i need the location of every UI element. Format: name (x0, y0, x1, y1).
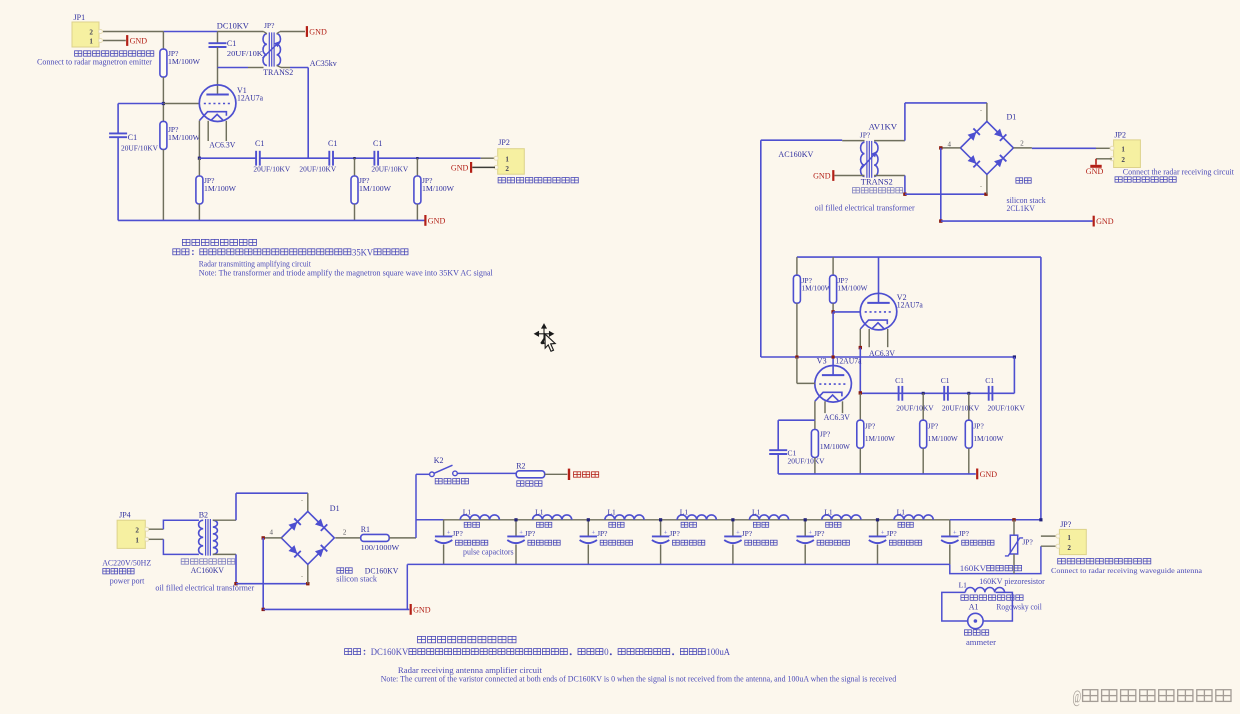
wire branch to TRANS2 primary bottom (218, 67, 249, 69)
label K2 chinese (435, 479, 442, 484)
svg-text:+: + (664, 529, 668, 536)
wire left cap top lead (117, 104, 119, 134)
svg-text:20UF/10KV: 20UF/10KV (371, 165, 408, 174)
wire to bridge2 bottom (236, 583, 308, 585)
svg-text:oil filled electrical transfor: oil filled electrical transformer (815, 204, 915, 213)
wire TRANS2 left top stub (264, 32, 267, 34)
capacitor JP? pulse #4 (652, 535, 669, 537)
wire gnd line right (941, 220, 1093, 222)
wire bottom rail (118, 219, 425, 221)
svg-text:power port: power port (110, 576, 145, 585)
wire V2 cathode to bus (859, 348, 861, 393)
wire bottom jog (950, 546, 1041, 573)
title receive chinese (418, 636, 426, 642)
svg-text:JP2: JP2 (1114, 131, 1126, 140)
rogowski coil L1 loop (942, 592, 1013, 621)
svg-text:Connect the radar receiving ci: Connect the radar receiving circuit (1123, 168, 1235, 177)
node junction bridge2 bottom (306, 582, 309, 585)
capacitor C1 bus3 (373, 151, 375, 166)
heater leads V3 (824, 401, 826, 413)
wire bus segment2 (260, 157, 330, 159)
svg-text:C1: C1 (941, 376, 950, 385)
wire rail right down (1013, 357, 1015, 393)
wire riser to K2 (415, 474, 417, 538)
wire V3 grid stub (796, 357, 798, 383)
wire bus segment4 (378, 157, 481, 159)
node junction gnd2 (262, 608, 265, 611)
svg-text:+: + (953, 529, 957, 536)
ground GND top right of TRANS2 (306, 26, 308, 37)
transformer TRANS2 left winding (263, 34, 267, 66)
svg-text:ammeter: ammeter (966, 638, 996, 647)
svg-text:+: + (736, 529, 740, 536)
svg-text:L1: L1 (959, 581, 968, 590)
svg-text:+: + (447, 529, 451, 536)
svg-text:+: + (808, 529, 812, 536)
capacitor C1 bus2 (328, 151, 330, 166)
svg-text:GND: GND (980, 470, 998, 479)
svg-text:1M/100W: 1M/100W (820, 442, 851, 451)
ground GND rail (424, 215, 426, 226)
wire gnd2 line (263, 608, 409, 610)
diode bridge D1 DC160KV (281, 511, 334, 564)
label silicon stack chinese (1016, 178, 1023, 183)
inductor L1 #6 (822, 515, 861, 520)
node junction grid (162, 102, 165, 105)
node ladder junction (587, 518, 590, 521)
svg-text:GND: GND (1096, 217, 1114, 226)
capacitor JP? pulse #7 (869, 535, 886, 537)
node junction rail right (1013, 355, 1016, 358)
wire bridge2 top lead (307, 493, 309, 511)
transformer TRANS2 core (268, 32, 270, 66)
wire ladder bus seg3 (588, 519, 660, 521)
wire jp3 pin2 stub (1041, 545, 1058, 547)
wire mid right vertical (1040, 257, 1042, 520)
wire top net blue (163, 31, 217, 33)
triode V1 12AU7a (199, 85, 236, 122)
svg-text:20UF/10KV: 20UF/10KV (942, 404, 980, 413)
wire bridge1 right lead (1013, 147, 1032, 149)
wire left cap bottom lead (117, 137, 119, 220)
svg-text:GND: GND (428, 217, 446, 226)
wire bridge1 left down (940, 148, 942, 221)
wire bridge2 bottom lead (307, 564, 309, 583)
svg-text:0: 0 (604, 647, 609, 657)
svg-text:1M/100W: 1M/100W (168, 57, 201, 66)
svg-text:1M/100W: 1M/100W (802, 283, 833, 292)
svg-text:JP?: JP? (860, 131, 871, 140)
svg-text:-: - (980, 184, 982, 190)
inductor L1 #7 (894, 515, 933, 520)
svg-text:JP?: JP? (1060, 520, 1072, 529)
wire TRANS2 right bottom (277, 65, 281, 67)
node junction bus r3 (416, 157, 418, 159)
wire mid bottom rail (778, 473, 976, 475)
ground GND at JP1 (126, 35, 128, 46)
wire ladder bus seg6 (805, 519, 877, 521)
capacitor JP? pulse #2 (507, 535, 524, 537)
wire xfmr2 bottom right (874, 175, 905, 177)
wire xfmr2 top right (874, 140, 905, 142)
node junction bus mid left (859, 391, 862, 394)
ground GND at JP2 pin2 (470, 162, 472, 173)
wire B2 bottom right (213, 553, 236, 555)
svg-text:C1: C1 (128, 133, 137, 142)
svg-text:20UF/10KV: 20UF/10KV (988, 404, 1026, 413)
svg-text:JP?: JP? (1022, 537, 1033, 546)
svg-text:TRANS2: TRANS2 (263, 68, 293, 77)
svg-text:-: - (301, 574, 303, 580)
resistor JP? 1M/100W (bus mid) (354, 158, 356, 176)
wire TRANS2 right top to GND (277, 32, 280, 34)
svg-text:GND: GND (413, 606, 431, 615)
svg-text:JP?: JP? (886, 529, 897, 538)
node junction xfmr2 out (903, 193, 906, 196)
svg-text:TRANS2: TRANS2 (861, 178, 893, 187)
node ladder junction (876, 518, 879, 521)
svg-text:2: 2 (135, 527, 139, 535)
note transmit chinese (173, 249, 180, 255)
resistor JP? 1M/100W (V3 cathode) (811, 430, 818, 458)
svg-text:4: 4 (270, 528, 274, 536)
wire V3 cathode down (814, 401, 816, 420)
wire between resistors (162, 77, 164, 121)
wire bus to JP2 (481, 157, 496, 159)
node junction gnd line (939, 219, 942, 222)
svg-text:AC160KV: AC160KV (191, 566, 224, 575)
label B2 chinese (181, 559, 188, 564)
svg-text:L1: L1 (752, 507, 761, 516)
svg-text:B2: B2 (199, 510, 208, 519)
wire cathode bus segment1 (199, 157, 256, 159)
svg-text:oil filled electrical transfor: oil filled electrical transformer (155, 583, 254, 592)
capacitor JP? pulse #8 (941, 535, 958, 537)
svg-text:160KV piezoresistor: 160KV piezoresistor (979, 577, 1045, 586)
transformer B2 right winding (213, 520, 218, 554)
svg-text:20UF/10KV: 20UF/10KV (788, 457, 826, 466)
svg-text:-: - (980, 108, 982, 114)
wire V2 cathode down (859, 329, 861, 348)
svg-text:JP?: JP? (865, 421, 876, 430)
cursor move arrows (535, 324, 554, 343)
svg-text:V3: V3 (817, 356, 827, 365)
svg-text:2: 2 (505, 165, 509, 173)
svg-text:C1: C1 (227, 39, 236, 48)
svg-text:Radar transmitting amplifying: Radar transmitting amplifying circuit (199, 260, 312, 269)
label rogowski chinese (961, 595, 968, 600)
svg-text:35KV: 35KV (352, 247, 374, 257)
svg-text:AC6.3V: AC6.3V (209, 140, 235, 149)
svg-text:1M/100W: 1M/100W (973, 434, 1004, 443)
node junction bridge1 bottom (984, 193, 987, 196)
node ladder junction (804, 518, 807, 521)
svg-text:silicon stack: silicon stack (336, 574, 377, 583)
label connect receive chinese (1115, 177, 1122, 182)
svg-text:AC35kv: AC35kv (310, 59, 337, 68)
svg-text:GND: GND (1086, 167, 1104, 176)
wire resistor2 bottom (162, 149, 164, 220)
wire ladder bus seg2 (516, 519, 588, 521)
node ladder junction (731, 518, 734, 521)
resistor JP? 1M/100W (mid B) (832, 257, 834, 275)
svg-text:1: 1 (89, 37, 93, 45)
ground GND mid (976, 469, 978, 480)
svg-text:C1: C1 (328, 139, 337, 148)
label JP2 chinese (498, 178, 505, 183)
node junction V2 grid (831, 310, 834, 313)
wire bottom bus left drop (406, 564, 408, 609)
wire ladder bus seg7 (878, 519, 950, 521)
node junction bridge1 left (939, 146, 942, 149)
node junction bus jp (1039, 518, 1042, 521)
wire jp3 pin1 (1041, 535, 1058, 537)
label ammeter chinese (965, 630, 972, 635)
wire cathode V1 down (198, 121, 200, 159)
transformer TRANS2 oil core (866, 141, 868, 178)
svg-text:pulse capacitors: pulse capacitors (463, 548, 514, 557)
wire bridge2 left down (262, 538, 264, 610)
node junction midbus d2 (967, 392, 970, 395)
wire to bridge1 bottom (905, 193, 986, 195)
ammeter A1 (968, 613, 983, 628)
wire AC160KV horizontal (761, 139, 842, 141)
wire ladder feed (416, 519, 444, 521)
capacitor C1 midbus2 (943, 386, 945, 401)
svg-text:AV1KV: AV1KV (869, 122, 898, 131)
svg-text:L1: L1 (607, 507, 616, 516)
resistor JP? 1M/100W (mid F) (968, 393, 970, 420)
switch K2 (430, 472, 435, 477)
transformer TRANS2 oil right winding (874, 142, 878, 176)
svg-text:1M/100W: 1M/100W (928, 434, 959, 443)
svg-text:C1: C1 (255, 139, 264, 148)
wire C1 branch (778, 419, 815, 421)
wire B2 top right (213, 519, 236, 521)
node junction rail A (795, 355, 798, 358)
resistor JP? 1M/100W (mid E) (922, 393, 924, 420)
svg-text:K2: K2 (434, 456, 444, 465)
wire mid second rail (761, 356, 1015, 358)
svg-text:A1: A1 (969, 603, 979, 612)
svg-text:C1: C1 (985, 376, 994, 385)
svg-text:+: + (519, 529, 523, 536)
wire ladder bus seg4 (661, 519, 733, 521)
label JP1 chinese (75, 51, 82, 56)
node junction bus r2 (353, 157, 355, 159)
wire JP1 pin2 (103, 31, 163, 33)
svg-text:L1: L1 (897, 507, 906, 516)
svg-text:@: @ (1073, 687, 1082, 707)
svg-text:AC220V/50HZ: AC220V/50HZ (102, 558, 151, 567)
resistor JP? 1M/100W (upper left) (160, 49, 167, 77)
wire cap1 leads (443, 520, 445, 537)
svg-text:JP?: JP? (928, 421, 939, 430)
node junction cathode bus (198, 157, 201, 160)
svg-text:JP?: JP? (264, 21, 275, 30)
svg-text:Note: The transformer and trio: Note: The transformer and triode amplify… (199, 268, 494, 277)
wire ladder bus right end (950, 519, 1041, 521)
wire bridge1 top lead (986, 103, 988, 123)
wire AC35kv vertical (307, 68, 309, 159)
svg-text:12AU7a: 12AU7a (836, 356, 862, 365)
svg-text:C1: C1 (895, 376, 904, 385)
node junction varistor top (1012, 518, 1015, 521)
svg-text:1: 1 (135, 537, 139, 545)
resistor JP? 1M/100W (bus right) (416, 158, 418, 176)
inductor L1 #3 (605, 515, 644, 520)
wire JP2 pin2 gnd (1096, 158, 1112, 160)
svg-text:JP?: JP? (597, 529, 608, 538)
svg-text:JP?: JP? (525, 529, 536, 538)
triode V2 12AU7a (860, 293, 897, 330)
svg-text:JP?: JP? (814, 529, 825, 538)
ground GND xfmr2 (832, 170, 834, 181)
diode bridge D1 silicon stack (960, 121, 1013, 174)
svg-text:Rogowsky coil: Rogowsky coil (996, 603, 1042, 612)
label jp3 chinese (1058, 559, 1066, 564)
svg-text:100uA: 100uA (707, 647, 731, 657)
triode V3 12AU7a (815, 366, 852, 403)
wire anode cap lead (217, 32, 219, 44)
ground GND bridge1 (1093, 216, 1095, 227)
svg-text:JP?: JP? (820, 429, 831, 438)
svg-text:DC160KV: DC160KV (371, 647, 409, 657)
wire resistor top lead (162, 32, 164, 50)
svg-text:1M/100W: 1M/100W (168, 133, 201, 142)
transformer B2 left winding (199, 520, 204, 554)
svg-text:2CL1KV: 2CL1KV (1007, 204, 1036, 213)
title transmit chinese (182, 239, 190, 245)
svg-text:12AU7a: 12AU7a (237, 94, 263, 103)
wire ladder bus seg5 (733, 519, 805, 521)
svg-text:1: 1 (505, 155, 509, 163)
wire K2 to R2 (457, 472, 516, 474)
svg-text:L1: L1 (680, 507, 689, 516)
inductor L1 #4 (677, 515, 716, 520)
svg-text:D1: D1 (1007, 112, 1017, 121)
wire bridge1 bottom lead (986, 173, 988, 194)
capacitor JP? pulse #6 (797, 535, 814, 537)
wire cap5 leads (732, 520, 734, 537)
svg-text:100/1000W: 100/1000W (361, 543, 401, 552)
svg-text:GND: GND (130, 37, 148, 46)
wire grid V2 (833, 311, 860, 313)
svg-text:JP1: JP1 (74, 13, 86, 22)
ground GND JP2 receive (1090, 165, 1101, 168)
resistor R2 water (516, 471, 545, 478)
wire grid to tube (163, 103, 200, 105)
svg-text:160KV: 160KV (960, 564, 987, 573)
node junction bridge2 left (262, 536, 265, 539)
svg-text:20UF/10K: 20UF/10K (227, 49, 264, 58)
ground rod symbol (568, 469, 570, 480)
label oil xfmr chinese (853, 188, 860, 193)
svg-text:GND: GND (813, 172, 831, 181)
svg-text:C1: C1 (373, 139, 382, 148)
svg-text:JP?: JP? (742, 529, 753, 538)
svg-text:Connect to radar magnetron emi: Connect to radar magnetron emitter (37, 57, 152, 66)
svg-text:1: 1 (1067, 534, 1071, 542)
svg-text:+: + (592, 529, 596, 536)
transformer B2 core (205, 519, 207, 556)
svg-text:20UF/10KV: 20UF/10KV (121, 144, 159, 153)
svg-text:DC10KV: DC10KV (217, 22, 249, 31)
cursor pointer (545, 334, 555, 351)
svg-text:AC160KV: AC160KV (778, 149, 814, 159)
svg-text:JP2: JP2 (498, 138, 510, 147)
node junction midbus d1 (922, 392, 925, 395)
wire to TRANS2 (218, 31, 264, 33)
wire bottom bus (407, 563, 950, 565)
wire JP4 pin2 (149, 528, 164, 530)
svg-text:Connect to radar receiving wav: Connect to radar receiving waveguide ant… (1051, 566, 1203, 575)
label silicon stack2 chinese (337, 568, 344, 573)
svg-text:1M/100W: 1M/100W (422, 184, 455, 193)
svg-text:L1: L1 (463, 507, 472, 516)
note receive chinese (345, 649, 352, 655)
wire bus segment3 (333, 157, 374, 159)
resistor JP? 1M/100W (second left) (160, 121, 167, 149)
svg-text:20UF/10KV: 20UF/10KV (253, 165, 290, 174)
svg-text:L1: L1 (824, 507, 833, 516)
svg-text:GND: GND (309, 28, 327, 37)
resistor R1 100/1000W (361, 534, 390, 541)
wire grid horizontal blue (118, 103, 163, 105)
capacitor C1 top 20UF/10K (209, 42, 227, 44)
wire cap7 leads (877, 520, 879, 537)
svg-text:GND: GND (451, 164, 469, 173)
capacitor C1 bus1 (255, 151, 257, 166)
svg-text:1M/100W: 1M/100W (838, 283, 869, 292)
svg-text:2: 2 (1020, 140, 1024, 148)
wire mid top rail (797, 256, 1041, 258)
transformer TRANS2 arrow (263, 41, 281, 58)
inductor L1 #5 (749, 515, 788, 520)
wire caps bus mid (860, 392, 1014, 394)
svg-text:+: + (881, 529, 885, 536)
wire C1 bottom (777, 454, 779, 474)
capacitor JP? pulse #5 (724, 535, 741, 537)
wire bridge2 left lead (263, 537, 282, 539)
transformer TRANS2 right winding (277, 34, 281, 66)
capacitor JP? pulse #1 (435, 535, 452, 537)
svg-text:2: 2 (343, 528, 347, 536)
transformer TRANS2 oil arrow (860, 151, 877, 170)
svg-text:D1: D1 (330, 504, 340, 513)
svg-text:JP?: JP? (452, 529, 463, 538)
resistor JP? 1M/100W (cathode) (198, 158, 200, 176)
capacitor C1 midbus1 (898, 386, 900, 401)
varistor JP? 160KV (1013, 520, 1015, 535)
wire bridge1 left lead (941, 147, 961, 149)
svg-text:20UF/10KV: 20UF/10KV (896, 404, 934, 413)
inductor L1 #1 (460, 515, 499, 520)
wire AC160KV vertical (760, 140, 762, 357)
wire bridge1 to JP2 (1032, 147, 1096, 149)
wire cap to branch (217, 47, 219, 95)
heater leads V1 (207, 121, 209, 141)
wire cap8 leads (949, 520, 951, 537)
heater leads V2 (868, 329, 870, 347)
svg-text:-: - (301, 498, 303, 504)
ground GND bottom (410, 604, 412, 615)
svg-text:JP?: JP? (669, 529, 680, 538)
node junction rail B (832, 355, 835, 358)
wire cap2 leads (515, 520, 517, 537)
wire ladder bus seg1 (444, 519, 516, 521)
node junction V2 cathode (859, 346, 862, 349)
